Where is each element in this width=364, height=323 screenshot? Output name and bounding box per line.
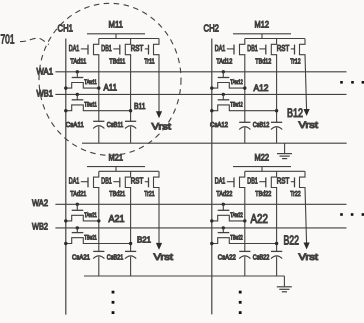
svg-text:DB1: DB1: [101, 44, 112, 53]
wire node B21 vertical (TBd21 source to CsB21): [130, 188, 132, 252]
capacitor CsA12 top plate: [239, 121, 250, 123]
svg-text:Tr11: Tr11: [144, 56, 155, 65]
transistor Tr21 gate electrode: [148, 177, 150, 187]
transistor TAw22 gate electrode: [218, 209, 230, 211]
svg-text:701: 701: [1, 32, 15, 47]
svg-text:TBd21: TBd21: [109, 189, 125, 198]
svg-text:TBw11: TBw11: [84, 102, 97, 109]
svg-text:DB1: DB1: [247, 44, 258, 53]
transistor TBd12 gate electrode: [265, 45, 267, 55]
svg-text:RST: RST: [131, 44, 144, 53]
capacitor CsB21 curved bottom plate: [125, 256, 136, 259]
wire gate of TAd21: [81, 181, 88, 183]
wire stub M21 to drain rail: [115, 167, 117, 172]
transistor TAd11 (drain lead, channel, source arm): [94, 39, 99, 56]
transistor TBd21 gate electrode: [119, 177, 121, 187]
wire drain rail of cell 21: [99, 170, 159, 172]
svg-text:DA1: DA1: [69, 177, 80, 186]
wire CsB21 to ground rail: [130, 257, 132, 276]
svg-text:RST: RST: [277, 44, 290, 53]
transistor TBd22 (drain lead, channel, source arm): [271, 171, 276, 188]
array continuation dots below cell 21: [112, 291, 115, 314]
junction dot TAw11 drain on CH bus: [64, 86, 67, 89]
wire Tr11 source to Vrst: [158, 55, 160, 113]
wire node A11 vertical (TAd11 source to CsA11): [98, 55, 100, 122]
transistor TBw21 gate electrode: [72, 232, 84, 234]
wire word line WA2: [55, 203, 346, 205]
transistor TAd11 gate electrode: [87, 45, 89, 55]
wire gate stub TAw11: [76, 72, 78, 78]
transistor TAw21 channel and source/drain leads: [66, 215, 99, 221]
junction dot gate TAw12 on WA1: [222, 70, 225, 73]
svg-text:TBd22: TBd22: [255, 189, 271, 198]
transistor TBw21 channel and source/drain leads: [66, 238, 131, 244]
array continuation dots right of row 1: [340, 81, 364, 84]
svg-text:CsB22: CsB22: [253, 253, 269, 262]
wire gate of Tr21: [145, 181, 149, 183]
capacitor CsB12 top plate: [271, 121, 282, 123]
svg-text:WA1: WA1: [37, 67, 54, 77]
capacitor CsA11 curved bottom plate: [93, 126, 104, 129]
wire CH1 column bus: [65, 39, 67, 315]
wire gate of Tr22: [291, 181, 295, 183]
svg-text:M22: M22: [255, 152, 270, 163]
transistor Tr11 gate electrode: [148, 45, 150, 55]
transistor TBw11 gate electrode: [72, 99, 84, 101]
svg-text:DA1: DA1: [215, 177, 226, 186]
wire gate of TAd22: [227, 181, 234, 183]
wire ground rail row 1: [82, 142, 347, 144]
junction dot TBw21 drain on CH bus: [64, 242, 67, 245]
junction dot TBw21 source on node B21: [129, 242, 132, 245]
transistor Tr11 (drain lead, channel, source arm): [154, 39, 160, 56]
transistor TAw22 channel and source/drain leads: [212, 215, 245, 221]
wire gate of TAd11: [81, 48, 88, 50]
wire CsA12 to ground rail: [244, 128, 246, 144]
capacitor CsA22 curved bottom plate: [239, 256, 250, 259]
wire drain rail of cell 11: [99, 38, 159, 40]
transistor TAd12 gate electrode: [233, 45, 235, 55]
transistor Tr21 (drain lead, channel, source arm): [154, 171, 160, 188]
wire node B12 vertical (TBd12 source to CsB12): [276, 55, 278, 123]
svg-text:CsA21: CsA21: [72, 253, 90, 262]
svg-text:TBd12: TBd12: [255, 56, 271, 65]
transistor TAd22 gate electrode: [233, 177, 235, 187]
svg-text:Tr22: Tr22: [290, 189, 301, 198]
svg-text:RST: RST: [277, 177, 290, 186]
wire CsA11 to ground rail: [98, 127, 100, 144]
transistor TBw11 channel and source/drain leads: [66, 105, 131, 111]
wire word line WB1: [55, 93, 346, 95]
transistor TAd22 (drain lead, channel, source arm): [240, 171, 245, 188]
svg-text:Vrst: Vrst: [154, 252, 174, 263]
array continuation dots below cell 22: [239, 291, 242, 314]
junction dot TBw22 drain on CH bus: [210, 242, 213, 245]
arrowhead Vrst (cell 12): [304, 109, 310, 116]
svg-text:A12: A12: [254, 83, 269, 94]
wire node A22 vertical (TAd22 source to CsA22): [244, 188, 246, 252]
svg-text:A21: A21: [109, 214, 125, 225]
transistor Tr12 (drain lead, channel, source arm): [300, 39, 306, 56]
svg-text:RST: RST: [131, 177, 144, 186]
junction dot TAw12 source on node A12: [243, 86, 246, 89]
junction dot TBw22 source on node B22: [275, 242, 278, 245]
wire node B11 vertical (TBd11 source to CsB11): [130, 55, 132, 122]
wire gate of TBd21: [113, 181, 120, 183]
svg-text:WB1: WB1: [37, 89, 54, 99]
svg-text:CsA12: CsA12: [210, 120, 228, 129]
transistor TBw22 channel and source/drain leads: [212, 238, 277, 244]
svg-text:A11: A11: [104, 82, 118, 93]
wire ground stub row 2: [283, 276, 285, 287]
wire M11 supply line: [87, 33, 145, 35]
wire stub M22 to drain rail: [261, 167, 263, 172]
wire gate of TBd12: [259, 48, 266, 50]
wire CH2 column bus: [211, 39, 213, 315]
junction dot TAw21 source on node A21: [97, 219, 100, 222]
junction dot gate TAw21 on WA2: [76, 203, 79, 206]
wire node A21 vertical (TAd21 source to CsA21): [98, 188, 100, 252]
wire word line WB2: [55, 227, 346, 229]
svg-text:CH1: CH1: [58, 23, 74, 35]
svg-text:B21: B21: [137, 234, 151, 244]
wire gate of Tr12: [291, 48, 295, 50]
wire stub M12 to drain rail: [261, 34, 263, 39]
capacitor CsB12 curved bottom plate: [271, 127, 282, 130]
wire drain rail of cell 12: [245, 38, 305, 40]
transistor TAw11 gate electrode: [72, 77, 84, 79]
svg-text:Vrst: Vrst: [299, 120, 319, 131]
transistor TAw12 channel and source/drain leads: [212, 83, 245, 89]
wire CsB12 to ground rail: [276, 128, 278, 144]
wire gate stub TBw11: [76, 94, 78, 99]
svg-text:Vrst: Vrst: [299, 252, 319, 263]
svg-text:Tr12: Tr12: [290, 56, 301, 65]
arrowhead Vrst (cell 21): [156, 243, 162, 250]
junction dot gate TAw11 on WA1: [76, 70, 79, 73]
svg-text:CsB12: CsB12: [253, 120, 269, 129]
capacitor CsB11 curved bottom plate: [125, 126, 136, 129]
junction dot TAw12 drain on CH bus: [210, 86, 213, 89]
junction dot gate TBw22 on WB2: [222, 226, 225, 229]
svg-text:B11: B11: [134, 101, 146, 111]
wire gate stub TAw22: [222, 204, 224, 210]
transistor TBd12 (drain lead, channel, source arm): [271, 39, 276, 56]
svg-text:TAd22: TAd22: [216, 189, 232, 198]
svg-text:CsA22: CsA22: [218, 253, 236, 262]
wire CsB11 to ground rail: [130, 127, 132, 144]
wire gate stub TBw22: [222, 228, 224, 233]
wire drain rail of cell 22: [245, 170, 305, 172]
svg-text:WB2: WB2: [32, 222, 48, 233]
transistor TBw12 gate electrode: [218, 99, 230, 101]
wire word line WA1: [55, 71, 346, 73]
ground symbol row 1: [277, 154, 292, 159]
junction dot TBw11 source on node B11: [129, 109, 132, 112]
svg-text:B22: B22: [284, 234, 300, 248]
svg-text:DB1: DB1: [101, 177, 112, 186]
capacitor CsB21 top plate: [125, 250, 136, 252]
transistor TBw12 channel and source/drain leads: [212, 105, 277, 111]
svg-text:TAd21: TAd21: [70, 189, 86, 198]
junction dot TAw22 source on node A22: [243, 219, 246, 222]
wire gate stub TAw12: [222, 72, 224, 78]
svg-text:TAw11: TAw11: [84, 79, 97, 86]
svg-text:TAw12: TAw12: [230, 79, 243, 86]
dashed highlight ellipse around cell M11: [39, 3, 181, 155]
svg-text:TAw22: TAw22: [230, 212, 243, 219]
wire node A12 vertical (TAd12 source to CsA12): [244, 55, 246, 123]
svg-text:DA1: DA1: [69, 44, 80, 53]
wire Tr12 source to Vrst: [305, 55, 307, 111]
svg-text:B12: B12: [287, 106, 303, 120]
wire M22 supply line: [233, 166, 291, 168]
ground symbol row 2: [277, 287, 292, 292]
svg-text:Tr21: Tr21: [144, 189, 155, 198]
wire stub M11 to drain rail: [115, 34, 117, 39]
svg-text:DB1: DB1: [247, 177, 258, 186]
transistor Tr22 gate electrode: [294, 177, 296, 187]
wire Tr21 source to Vrst: [158, 188, 160, 245]
capacitor CsA21 top plate: [93, 250, 104, 252]
transistor TBd11 (drain lead, channel, source arm): [125, 39, 130, 56]
transistor TAd21 gate electrode: [87, 177, 89, 187]
capacitor CsA12 curved bottom plate: [239, 127, 250, 130]
junction dot TAw21 drain on CH bus: [64, 219, 67, 222]
wire gate stub TBw12: [222, 94, 224, 99]
svg-text:M12: M12: [255, 20, 270, 31]
wire gate of TBd22: [259, 181, 266, 183]
junction dot gate TBw12 on WB1: [222, 93, 225, 96]
svg-text:CH2: CH2: [204, 23, 220, 35]
transistor TAd21 (drain lead, channel, source arm): [94, 171, 99, 188]
svg-text:TBw22: TBw22: [230, 234, 243, 241]
transistor Tr12 gate electrode: [294, 45, 296, 55]
junction dot TAw11 source on node A11: [97, 86, 100, 89]
transistor TBd21 (drain lead, channel, source arm): [125, 171, 130, 188]
wire gate stub TBw21: [76, 228, 78, 233]
capacitor CsB22 curved bottom plate: [271, 256, 282, 259]
svg-text:TBw12: TBw12: [230, 102, 243, 109]
wire M12 supply line: [233, 33, 291, 35]
wire ground stub row 1: [284, 143, 286, 153]
wire Tr22 source to Vrst: [305, 188, 307, 245]
capacitor CsA11 top plate: [93, 120, 104, 122]
svg-text:CsA11: CsA11: [66, 120, 84, 129]
transistor TAw11 channel and source/drain leads: [66, 83, 99, 89]
transistor TAw12 gate electrode: [218, 77, 230, 79]
transistor TAd12 (drain lead, channel, source arm): [240, 39, 245, 56]
junction dot TBw12 drain on CH bus: [210, 109, 213, 112]
array continuation dots right of row 2: [340, 213, 364, 216]
svg-text:TBd11: TBd11: [109, 56, 125, 65]
capacitor CsB11 top plate: [125, 120, 136, 122]
svg-text:M11: M11: [109, 20, 124, 31]
capacitor CsB22 top plate: [271, 250, 282, 252]
wire gate of TBd11: [113, 48, 120, 50]
wire CsA21 to ground rail: [98, 257, 100, 276]
svg-text:WA2: WA2: [32, 198, 48, 209]
junction dot gate TAw22 on WA2: [222, 203, 225, 206]
svg-text:A22: A22: [251, 212, 269, 226]
svg-text:TAd12: TAd12: [216, 56, 232, 65]
wire gate of Tr11: [145, 48, 149, 50]
wire ground rail row 2: [84, 275, 284, 277]
junction dot TAw22 drain on CH bus: [210, 219, 213, 222]
capacitor CsA21 curved bottom plate: [93, 256, 104, 259]
wire M21 supply line: [87, 166, 145, 168]
dashed leader line from 701 to ellipse: [20, 38, 49, 44]
arrowhead Vrst (cell 11): [156, 111, 162, 118]
arrowhead Vrst (cell 22): [304, 243, 310, 250]
svg-text:M21: M21: [109, 152, 124, 163]
junction dot gate TBw21 on WB2: [76, 226, 79, 229]
transistor Tr22 (drain lead, channel, source arm): [300, 171, 306, 188]
wire gate of TAd12: [227, 48, 234, 50]
transistor TAw21 gate electrode: [72, 209, 84, 211]
svg-text:CsB21: CsB21: [107, 253, 124, 262]
svg-text:TAw21: TAw21: [84, 212, 97, 219]
svg-text:Vrst: Vrst: [152, 122, 172, 133]
transistor TBd11 gate electrode: [119, 45, 121, 55]
svg-text:DA1: DA1: [215, 44, 226, 53]
transistor TBd22 gate electrode: [265, 177, 267, 187]
svg-text:TBw21: TBw21: [84, 234, 97, 241]
wire node B22 vertical (TBd22 source to CsB22): [276, 188, 278, 252]
svg-text:CsB11: CsB11: [107, 120, 124, 129]
junction dot gate TBw11 on WB1: [76, 93, 79, 96]
wire CsA22 to ground rail: [244, 257, 246, 276]
junction dot TBw11 drain on CH bus: [64, 109, 67, 112]
wire gate stub TAw21: [76, 204, 78, 210]
capacitor CsA22 top plate: [239, 250, 250, 252]
svg-text:TAd11: TAd11: [70, 56, 86, 65]
wire CsB22 to ground rail: [276, 257, 278, 276]
transistor TBw22 gate electrode: [218, 232, 230, 234]
junction dot TBw12 source on node B12: [275, 109, 278, 112]
